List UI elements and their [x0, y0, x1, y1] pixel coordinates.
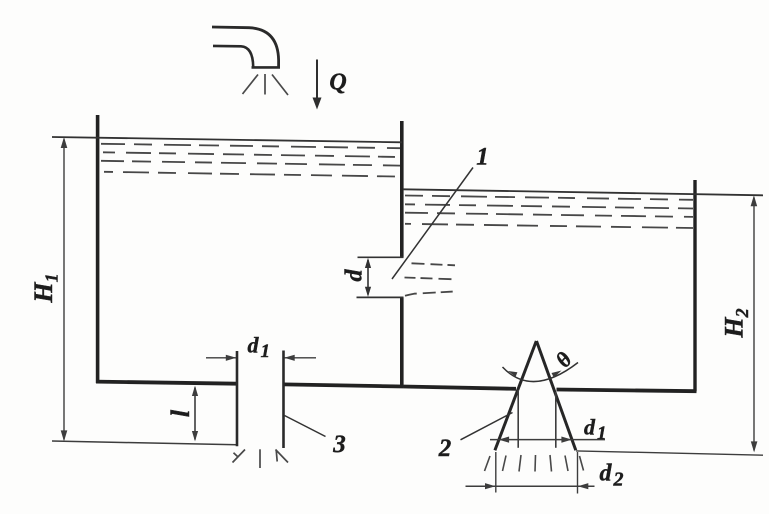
jet dashes through orifice row A	[412, 263, 456, 265]
dimension d1 (nozzle 3) left arrowhead	[226, 355, 237, 361]
left tank left wall	[96, 115, 100, 383]
jet contraction curve and dashes row C	[405, 292, 454, 296]
left tank bottom left of nozzle 3	[96, 382, 237, 384]
cone spray line 3	[519, 455, 521, 472]
svg-text:H2: H2	[720, 308, 753, 338]
pipe outlet edge	[252, 66, 281, 69]
dimension l bottom arrowhead	[192, 431, 198, 441]
svg-text:d: d	[342, 269, 368, 282]
svg-text:d2: d2	[600, 461, 624, 491]
dimension d2 left arrowhead	[485, 483, 496, 489]
dimension d1 (nozzle 3) left line	[206, 357, 236, 359]
cone spray line 6	[565, 456, 568, 472]
right tank right wall	[693, 180, 696, 391]
nozzle 3 right wall	[282, 351, 285, 449]
dimension l line	[194, 388, 196, 440]
flow arrow Q head	[313, 98, 322, 110]
dimension d1 (cone) left arrowhead	[499, 437, 510, 443]
nozzle 3 spray left mark	[233, 450, 246, 463]
cone spray line 4	[534, 455, 537, 472]
svg-text:d1: d1	[248, 333, 271, 363]
water surface right tank (with tick to H2 line)	[403, 189, 763, 195]
dimension d2 line	[466, 485, 595, 487]
svg-text:2: 2	[438, 435, 452, 462]
leader line for label 2	[461, 413, 513, 440]
dimension d line	[367, 260, 369, 295]
inlet pipe elbow inner line	[213, 46, 253, 67]
svg-text:H1: H1	[29, 273, 62, 303]
angle theta left arrowhead	[508, 371, 517, 377]
water dashes left tank row 1	[101, 144, 400, 148]
spray line left under pipe	[243, 75, 259, 95]
inlet pipe elbow outer line	[212, 27, 279, 67]
water dashes right tank row 3	[405, 213, 693, 217]
svg-text:1: 1	[476, 144, 489, 171]
leader line for label 3	[285, 416, 326, 437]
left tank bottom right of nozzle 3	[284, 384, 404, 386]
spray line right under pipe	[272, 75, 288, 96]
jet dashes through orifice row B	[405, 278, 455, 280]
angle theta arc	[503, 363, 579, 382]
dimension H2 top arrowhead	[751, 195, 758, 206]
middle wall upper segment	[400, 121, 404, 257]
nozzle 3 spray right mark	[276, 450, 289, 463]
water surface left tank (with tick to H1 line)	[52, 137, 402, 142]
svg-text:l: l	[166, 409, 195, 417]
orifice bottom tick	[357, 296, 404, 298]
dimension H2 bottom arrowhead	[751, 441, 758, 452]
svg-text:3: 3	[332, 431, 346, 458]
cone nozzle 2 right slant	[537, 341, 576, 450]
right tank bottom right of cone	[557, 390, 697, 392]
water dashes left tank row 3	[101, 161, 400, 166]
nozzle 3 spray center mark	[259, 449, 261, 468]
water dashes right tank row 2	[405, 204, 693, 208]
spray line center under pipe	[264, 74, 266, 95]
cone spray line 1	[485, 456, 491, 471]
cone inner vertical right (d1 extension)	[555, 392, 557, 448]
water dashes left tank row 2	[103, 152, 400, 157]
flow arrow Q shaft	[316, 60, 318, 101]
cone outer extension vertical left (d2)	[495, 452, 497, 493]
water dashes right tank row 4	[405, 224, 693, 228]
dimension d1 (nozzle 3) right arrowhead	[284, 355, 295, 361]
cone spray line 7	[580, 456, 584, 471]
middle wall lower segment	[400, 297, 404, 386]
dimension d1 (nozzle 3) right line	[285, 357, 317, 359]
dimension H2 line	[753, 198, 755, 451]
dimension d top arrowhead	[365, 258, 371, 268]
orifice top tick	[358, 256, 404, 258]
dimension l top arrowhead	[192, 386, 198, 396]
cone nozzle 2 left slant	[495, 341, 536, 450]
angle theta right arrowhead	[552, 371, 562, 378]
svg-text:Q: Q	[329, 70, 346, 96]
svg-text:θ: θ	[550, 347, 577, 372]
cone inner vertical left (d1 extension)	[517, 390, 519, 448]
cone spray line 5	[550, 455, 552, 472]
dimension d2 right arrowhead	[578, 483, 589, 489]
leader line for label 1	[392, 168, 473, 280]
dimension H1 line	[63, 140, 65, 440]
cone spray line 2	[503, 456, 507, 472]
dimension d1 (cone) line	[490, 439, 605, 441]
dimension H1 bottom arrowhead	[61, 430, 68, 441]
dimension d bottom arrowhead	[365, 287, 371, 297]
dimension H2 bottom tick (extends from cone)	[576, 451, 763, 455]
right tank bottom left of cone	[404, 387, 517, 389]
dimension H1 top arrowhead	[61, 137, 68, 148]
cone outer extension vertical right (d2)	[577, 452, 579, 494]
dimension H1 bottom tick (extends to nozzle 3)	[52, 441, 237, 445]
water dashes right tank row 1	[405, 196, 693, 200]
water dashes left tank row 4	[104, 172, 400, 177]
dimension d1 (cone) right arrowhead	[561, 437, 572, 443]
nozzle 3 left wall	[236, 351, 239, 446]
